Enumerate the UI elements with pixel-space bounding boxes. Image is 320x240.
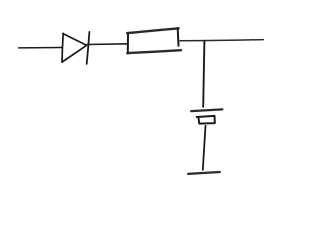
wire capacitor to ground — [203, 126, 206, 170]
diode D1 — [62, 32, 89, 64]
wire resistor to right edge — [180, 40, 263, 41]
resistor R1 (hand-drawn box) — [127, 28, 181, 53]
capacitor C1 (bottom plate box) — [197, 116, 215, 124]
ground — [188, 172, 220, 174]
wire diode to resistor — [87, 43, 128, 46]
capacitor C1 (polarized: top plate) — [191, 109, 222, 111]
node junction / wire down to capacitor — [203, 41, 204, 107]
wire input (left horizontal lead) — [19, 47, 62, 49]
